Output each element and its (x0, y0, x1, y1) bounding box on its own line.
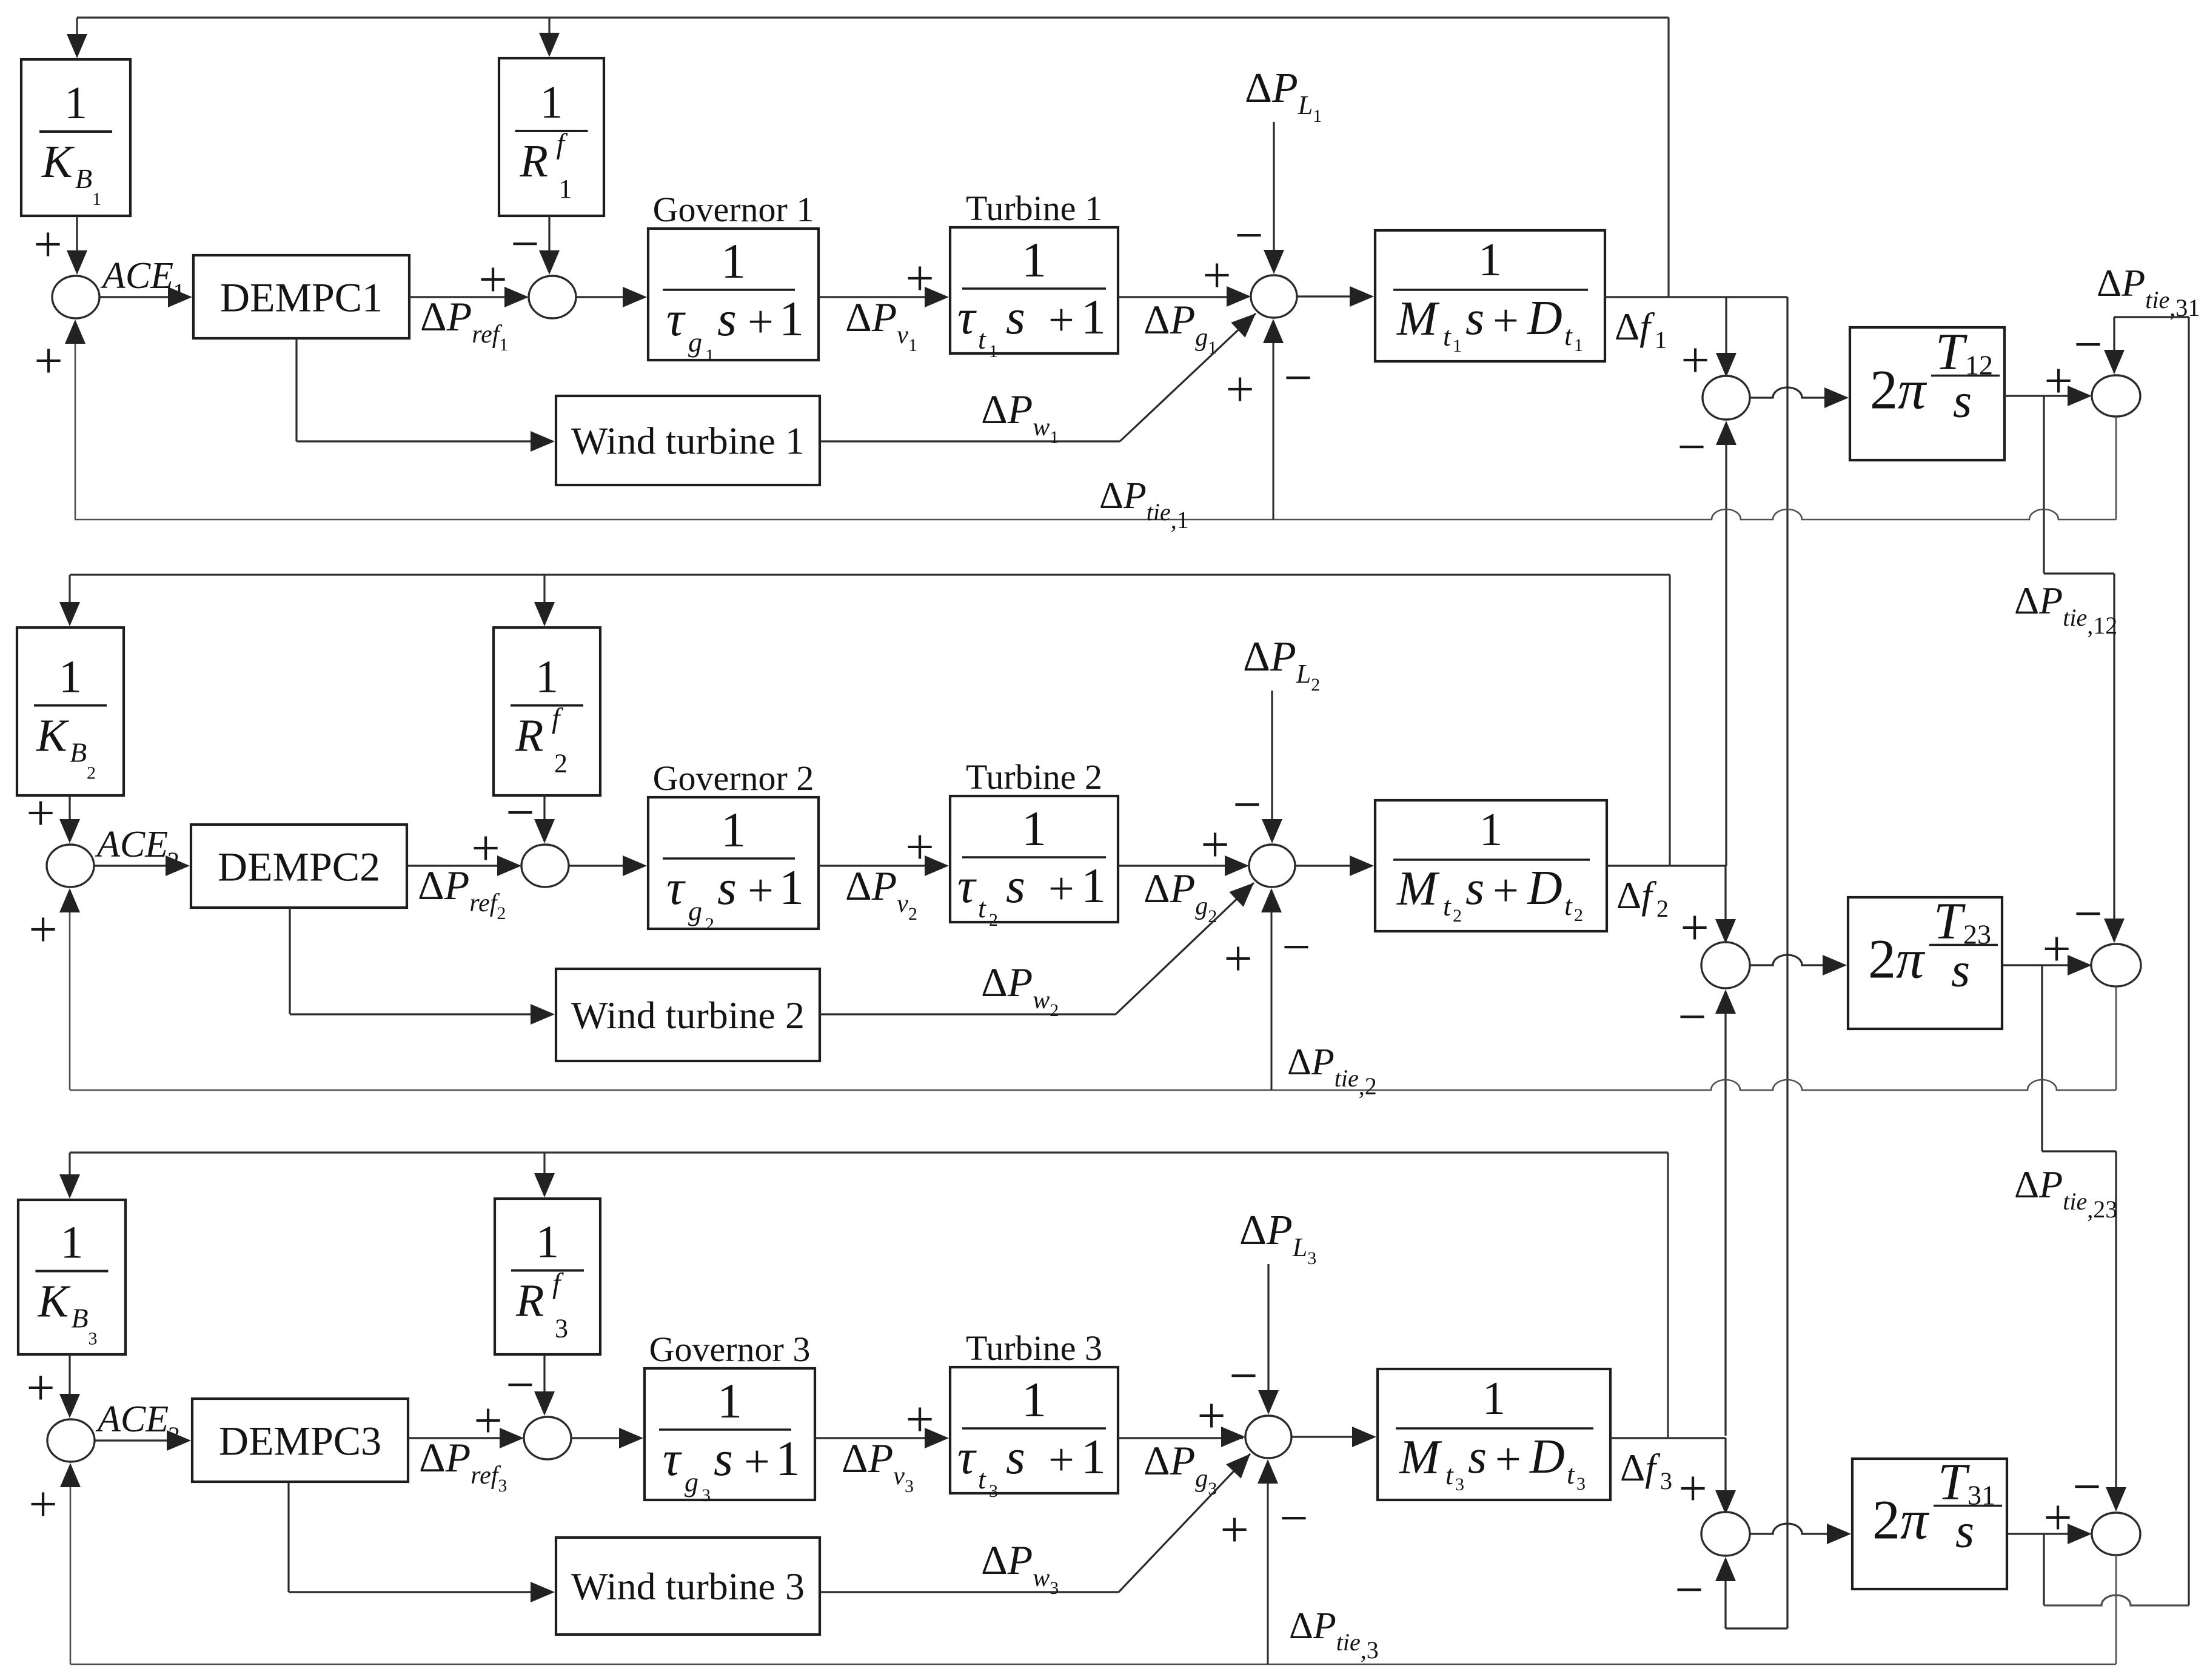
svg-text:K: K (36, 711, 69, 761)
svg-text:1: 1 (1482, 1372, 1506, 1424)
summing junction S2 (df2 - df3) (1701, 942, 1750, 988)
svg-text:1: 1 (779, 860, 804, 915)
svg-text:M: M (1396, 862, 1440, 915)
svg-text:+: + (748, 296, 774, 347)
svg-text:1: 1 (1022, 801, 1047, 856)
svg-text:B: B (70, 737, 87, 768)
svg-text:t: t (1443, 321, 1452, 352)
block 2pi T23/s (1848, 897, 2002, 1029)
summing junction A1 (ACE1) (52, 276, 99, 318)
summing junction S1 (df1 - df2) (1703, 376, 1750, 420)
wire A3 to DEMPC3 (95, 1439, 189, 1441)
wire Wind turbine 1 output dPw1 to C1 (820, 440, 1120, 442)
svg-text:+: + (28, 1476, 57, 1533)
svg-text:τ: τ (663, 1431, 682, 1486)
wire df1 long line down and into S3 bottom (minus) (1786, 297, 1788, 1628)
svg-text:+: + (2042, 921, 2071, 977)
svg-text:+: + (905, 819, 934, 875)
wire df1 feedback up to top line area 1 (1667, 18, 1669, 297)
svg-text:s: s (1006, 858, 1025, 913)
svg-text:+: + (28, 902, 57, 958)
svg-text:+: + (33, 216, 62, 273)
svg-text:D: D (1527, 292, 1562, 345)
svg-text:t: t (978, 1464, 986, 1494)
wire 1/KB2 to summing junction A2 (69, 795, 70, 841)
svg-text:B: B (72, 1303, 89, 1334)
svg-text:1: 1 (536, 1217, 559, 1268)
svg-text:3: 3 (989, 1481, 998, 1501)
svg-text:+: + (34, 333, 62, 389)
summing junction C3 (1245, 1416, 1291, 1458)
wire Governor 1 to Turbine 1 (819, 296, 946, 298)
svg-text:+: + (2044, 353, 2072, 409)
block Wind turbine 3 (556, 1538, 820, 1635)
wire dPtie1 return line (75, 509, 2116, 520)
svg-text:s: s (1006, 289, 1025, 344)
svg-text:DEMPC3: DEMPC3 (219, 1418, 381, 1464)
svg-text:ACE: ACE (95, 824, 168, 865)
svg-text:1: 1 (1081, 289, 1106, 344)
svg-text:−: − (1234, 207, 1263, 264)
block 1/(Mt3 s + Dt3) (1378, 1369, 1610, 1500)
svg-text:+: + (1048, 295, 1074, 346)
svg-text:s: s (717, 860, 737, 915)
svg-text:3: 3 (1576, 1474, 1586, 1494)
svg-text:τ: τ (957, 1429, 977, 1484)
svg-text:g: g (688, 327, 702, 358)
svg-text:+: + (1202, 247, 1231, 304)
block DEMPC1 (193, 255, 409, 338)
wire drop into 1/R2^f (543, 575, 545, 624)
wire S1 output to 2pi T12/s with hop (1750, 387, 1846, 398)
wire D2 output down (2115, 986, 2117, 1090)
svg-text:Δf: Δf (1616, 874, 1657, 917)
svg-text:1: 1 (1574, 335, 1583, 355)
svg-text:t: t (1564, 320, 1573, 351)
svg-text:Governor 3: Governor 3 (649, 1330, 811, 1369)
svg-text:Governor 1: Governor 1 (653, 190, 814, 229)
svg-text:t: t (1564, 890, 1573, 921)
svg-text:+: + (478, 252, 507, 308)
svg-text:−: − (2074, 316, 2102, 373)
wire C3 to rotor inertia block area 3 (1291, 1436, 1374, 1437)
wire dPtie1 up into A1 bottom (plus) (75, 343, 76, 520)
wire C1 to rotor inertia block area 1 (1297, 295, 1371, 297)
svg-text:1: 1 (559, 174, 572, 204)
wire dPtie2 return line (70, 1080, 2116, 1090)
block 1/R3^f (495, 1199, 600, 1354)
svg-text:1: 1 (1453, 336, 1462, 356)
svg-text:s: s (714, 1431, 733, 1486)
wire C2 to rotor inertia block area 2 (1295, 865, 1371, 866)
wire B3 to Governor 3 (571, 1437, 641, 1439)
svg-text:1: 1 (1478, 233, 1502, 286)
svg-text:Wind turbine 3: Wind turbine 3 (571, 1565, 805, 1608)
svg-text:Turbine 2: Turbine 2 (966, 757, 1102, 797)
svg-text:−: − (1233, 777, 1261, 833)
wire drop into 1/R3^f (543, 1153, 545, 1195)
wire DEMPC2 down to Wind turbine 2 (289, 908, 290, 1014)
svg-text:R: R (515, 1276, 544, 1327)
svg-text:+: + (905, 1391, 934, 1448)
svg-text:t: t (1443, 891, 1452, 922)
svg-text:τ: τ (666, 860, 686, 915)
svg-text:−: − (1675, 1562, 1703, 1618)
wire Turbine 3 to summing junction C3 (1118, 1437, 1243, 1439)
svg-text:+: + (1048, 1434, 1074, 1485)
svg-text:1: 1 (1655, 326, 1667, 353)
svg-text:−: − (2072, 1459, 2101, 1515)
wire df2 feedback up to top line area 2 (1669, 575, 1670, 866)
wire Governor 3 to Turbine 3 (815, 1437, 946, 1439)
summing junction B2 (521, 845, 569, 887)
wire drop into 1/KB3 (69, 1153, 70, 1196)
svg-text:1: 1 (59, 652, 82, 703)
block Turbine 1 transfer function (950, 227, 1118, 353)
svg-text:τ: τ (957, 289, 977, 344)
svg-text:2: 2 (705, 914, 714, 934)
wire T31 output to D3 (2007, 1533, 2089, 1534)
svg-text:1: 1 (64, 78, 87, 129)
block Governor 3 transfer function (645, 1368, 815, 1500)
svg-text:1: 1 (92, 189, 101, 209)
wire Turbine 2 to summing junction C2 (1118, 865, 1247, 866)
svg-text:s: s (1468, 1430, 1487, 1484)
svg-text:−: − (506, 1357, 534, 1413)
svg-text:−: − (1284, 350, 1312, 406)
svg-text:1: 1 (779, 291, 804, 346)
svg-text:1: 1 (717, 1373, 742, 1428)
block 1/KB2 (17, 627, 124, 795)
svg-text:−: − (511, 216, 539, 272)
svg-text:t: t (1445, 1459, 1454, 1490)
svg-text:2π: 2π (1868, 928, 1926, 990)
svg-text:T: T (1938, 1453, 1970, 1511)
svg-text:+: + (1678, 1461, 1707, 1517)
summing junction S3 (df3 - df1) (1701, 1512, 1750, 1556)
block 1/KB3 (18, 1200, 126, 1354)
summing junction B1 (529, 276, 576, 318)
svg-text:2π: 2π (1870, 359, 1927, 421)
wire df1 output line (1605, 296, 1787, 298)
svg-text:s: s (1006, 1429, 1025, 1484)
wire T23 output to D2 (2002, 964, 2089, 966)
svg-text:K: K (38, 1276, 71, 1327)
svg-text:DEMPC2: DEMPC2 (218, 844, 380, 890)
wire dPtie31 into D1 top (minus) (2113, 317, 2115, 373)
svg-text:+: + (905, 250, 934, 307)
wire df3 feedback up to top line area 3 (1667, 1153, 1669, 1438)
svg-text:+: + (1224, 931, 1252, 987)
summing junction D2 (tie-line 2) (2091, 944, 2141, 986)
svg-text:2: 2 (1453, 906, 1462, 926)
svg-text:D: D (1529, 1430, 1565, 1484)
svg-text:s: s (1465, 292, 1484, 345)
block 1/(Mt2 s + Dt2) (1375, 800, 1607, 931)
svg-text:+: + (1493, 295, 1519, 346)
svg-text:+: + (1681, 332, 1709, 389)
svg-text:−: − (1282, 919, 1310, 976)
wire dPtie31 from T31 junction down, right and up the right edge (2043, 1534, 2045, 1605)
wire DEMPC3 to summing junction B3 (408, 1437, 521, 1439)
wire 1/KB3 to summing junction A3 (69, 1354, 70, 1416)
svg-text:τ: τ (666, 291, 686, 346)
svg-text:+: + (1225, 361, 1254, 418)
svg-text:−: − (1229, 1348, 1258, 1404)
svg-text:3: 3 (89, 1329, 98, 1349)
svg-text:+: + (26, 785, 55, 842)
svg-text:ACE: ACE (100, 255, 173, 296)
wire dPL2 into C2 (1271, 691, 1273, 841)
svg-text:g: g (685, 1467, 698, 1498)
svg-text:1: 1 (721, 233, 746, 289)
block 1/(Mt1 s + Dt1) (1375, 230, 1605, 361)
wire df3 output line (1610, 1437, 1726, 1439)
svg-text:1: 1 (535, 652, 558, 703)
svg-text:+: + (1680, 900, 1709, 956)
summing junction B3 (524, 1417, 571, 1459)
wire drop into 1/KB2 (69, 575, 70, 624)
svg-text:2π: 2π (1872, 1489, 1930, 1551)
block 2pi T31/s (1852, 1459, 2007, 1589)
wire A1 to DEMPC1 (99, 296, 190, 298)
svg-text:R: R (520, 136, 548, 187)
block 2pi T12/s (1850, 327, 2004, 460)
svg-text:D: D (1527, 862, 1562, 915)
svg-text:Turbine 1: Turbine 1 (966, 189, 1102, 228)
block Governor 1 transfer function (648, 229, 819, 360)
wire dPtie3 up into C3 bottom (minus) (1267, 1482, 1269, 1664)
svg-text:Δf: Δf (1615, 305, 1655, 348)
wire df3 up into S2 bottom (minus) (1724, 1012, 1726, 1436)
svg-text:t: t (978, 892, 986, 923)
wire DEMPC1 to summing junction B1 (409, 296, 526, 298)
wire df3 drop into S3 (1724, 1438, 1726, 1512)
block DEMPC2 (191, 825, 407, 908)
svg-text:2: 2 (554, 749, 568, 778)
wire dPtie3 up into A3 bottom (plus) (70, 1486, 72, 1664)
svg-text:2: 2 (1656, 895, 1669, 922)
svg-text:ACE: ACE (95, 1399, 169, 1440)
wire df1 drop into S1 (1725, 297, 1727, 375)
svg-text:+: + (1220, 1502, 1248, 1558)
wire 1/KB1 to summing junction A1 (76, 216, 78, 272)
svg-text:1: 1 (1081, 858, 1106, 913)
svg-text:R: R (515, 711, 543, 761)
wire top feedback line area 3 (70, 1151, 1668, 1153)
svg-text:3: 3 (1455, 1474, 1464, 1494)
wire B2 to Governor 2 (569, 865, 645, 866)
svg-text:+: + (1048, 863, 1074, 914)
svg-text:K: K (41, 136, 75, 187)
block Governor 2 transfer function (648, 797, 819, 929)
svg-text:t: t (1567, 1459, 1575, 1490)
wire D3 output down (2115, 1555, 2117, 1664)
svg-text:Wind turbine 1: Wind turbine 1 (571, 420, 805, 463)
wire top feedback line area 1 (77, 16, 1669, 18)
svg-text:1: 1 (775, 1431, 800, 1486)
svg-text:+: + (1493, 865, 1519, 916)
wire top feedback line area 2 (70, 574, 1670, 575)
wire drop into 1/R1^f (548, 18, 550, 55)
wire dPtie1 up into C1 bottom (minus) (1273, 342, 1274, 520)
svg-text:1: 1 (989, 341, 998, 361)
svg-text:+: + (1197, 1388, 1225, 1444)
wire df2 drop into S2 (1724, 866, 1726, 941)
wire Wind turbine 3 output dPw3 to C3 (820, 1591, 1119, 1593)
svg-text:s: s (1955, 1505, 1974, 1558)
svg-text:−: − (506, 785, 534, 841)
svg-text:3: 3 (555, 1314, 568, 1344)
svg-text:s: s (1951, 944, 1970, 997)
svg-text:B: B (75, 163, 92, 194)
wire DEMPC2 to summing junction B2 (407, 865, 519, 866)
svg-text:T: T (1935, 323, 1968, 381)
wire A2 to DEMPC2 (94, 865, 187, 866)
svg-text:Wind turbine 2: Wind turbine 2 (571, 994, 805, 1037)
wire Turbine 1 to summing junction C1 (1118, 296, 1248, 298)
wire df2 up into S1 bottom (minus) (1725, 444, 1727, 866)
summing junction C2 (1249, 845, 1295, 887)
summing junction D3 (tie-line 3) (2092, 1513, 2140, 1555)
svg-text:T: T (1934, 892, 1966, 950)
svg-text:DEMPC1: DEMPC1 (220, 275, 383, 321)
summing junction C1 (1251, 275, 1297, 318)
svg-text:2: 2 (87, 763, 96, 783)
svg-text:1: 1 (705, 346, 714, 366)
wire 1/R3^f to B3 (543, 1354, 545, 1413)
svg-text:+: + (474, 1393, 502, 1449)
svg-text:−: − (1678, 989, 1706, 1045)
svg-text:2: 2 (989, 910, 998, 930)
wire S2 output to 2pi T23/s with hop (1750, 955, 1844, 965)
svg-text:M: M (1396, 292, 1440, 346)
svg-text:1: 1 (721, 802, 746, 857)
wire 1/R1^f to B1 (548, 216, 550, 272)
wire drop into 1/KB1 (76, 18, 78, 56)
summing junction D1 (tie-line 1) (2092, 375, 2140, 417)
svg-text:1: 1 (1022, 232, 1047, 287)
wire dPtie2 up into A2 bottom (plus) (69, 911, 71, 1090)
wire DEMPC1 down to Wind turbine 1 (295, 338, 297, 441)
svg-text:+: + (2043, 1490, 2072, 1546)
svg-text:1: 1 (1479, 803, 1503, 855)
wire Governor 2 to Turbine 2 (819, 865, 946, 866)
wire 1/R2^f to B2 (543, 795, 545, 841)
svg-text:Turbine 3: Turbine 3 (966, 1328, 1102, 1368)
wire dPtie12 from T12 junction down into D2 top (minus) (2043, 396, 2045, 574)
svg-text:s: s (1465, 862, 1484, 915)
wire dPtie23 from T23 junction down into D3 top (minus) (2041, 965, 2043, 1151)
svg-text:+: + (1495, 1434, 1521, 1485)
svg-text:1: 1 (61, 1217, 84, 1268)
svg-text:τ: τ (957, 858, 977, 913)
svg-text:1: 1 (1081, 1429, 1106, 1484)
svg-text:+: + (471, 820, 500, 877)
svg-text:−: − (2074, 886, 2102, 942)
wire S3 output to 2pi T31/s with hop (1750, 1524, 1849, 1534)
svg-text:M: M (1399, 1431, 1442, 1484)
wire dPL3 into C3 (1267, 1264, 1269, 1412)
svg-text:3: 3 (702, 1485, 711, 1505)
wire df2 output line (1607, 865, 1726, 866)
svg-text:s: s (717, 291, 737, 346)
wire B1 to Governor 1 (576, 296, 645, 298)
wire dPL1 into C1 (1273, 122, 1274, 272)
block 1/R1^f (499, 58, 604, 216)
svg-text:2: 2 (1574, 905, 1583, 925)
svg-text:g: g (688, 895, 702, 926)
block Wind turbine 2 (556, 969, 820, 1061)
block 1/R2^f (494, 627, 600, 795)
wire T12 output to D1 (2004, 395, 2089, 397)
svg-text:s: s (1953, 375, 1972, 428)
svg-text:−: − (1279, 1490, 1308, 1547)
summing junction A2 (ACE2) (47, 845, 94, 887)
svg-text:+: + (26, 1360, 55, 1416)
summing junction A3 (ACE3) (47, 1419, 95, 1462)
block DEMPC3 (192, 1399, 408, 1482)
svg-text:1: 1 (1022, 1372, 1047, 1427)
svg-text:Governor 2: Governor 2 (653, 758, 814, 798)
wire DEMPC3 down to Wind turbine 3 (287, 1482, 289, 1592)
wire Wind turbine 2 output dPw2 to C2 (820, 1013, 1116, 1015)
svg-text:3: 3 (1660, 1467, 1672, 1494)
wire dPtie2 up into C2 bottom (minus) (1271, 911, 1273, 1090)
svg-text:t: t (978, 324, 986, 355)
block Turbine 2 transfer function (950, 796, 1118, 922)
block Turbine 3 transfer function (950, 1367, 1118, 1493)
svg-text:−: − (1677, 419, 1706, 475)
svg-text:+: + (748, 865, 774, 916)
block 1/KB1 (21, 59, 130, 216)
wire dPtie3 return line (70, 1664, 2116, 1665)
svg-text:+: + (744, 1436, 770, 1487)
wire D1 output down (2115, 417, 2117, 520)
block Wind turbine 1 (556, 396, 820, 485)
svg-text:+: + (1201, 817, 1229, 873)
svg-text:1: 1 (540, 77, 563, 128)
svg-text:Δf: Δf (1620, 1446, 1661, 1489)
